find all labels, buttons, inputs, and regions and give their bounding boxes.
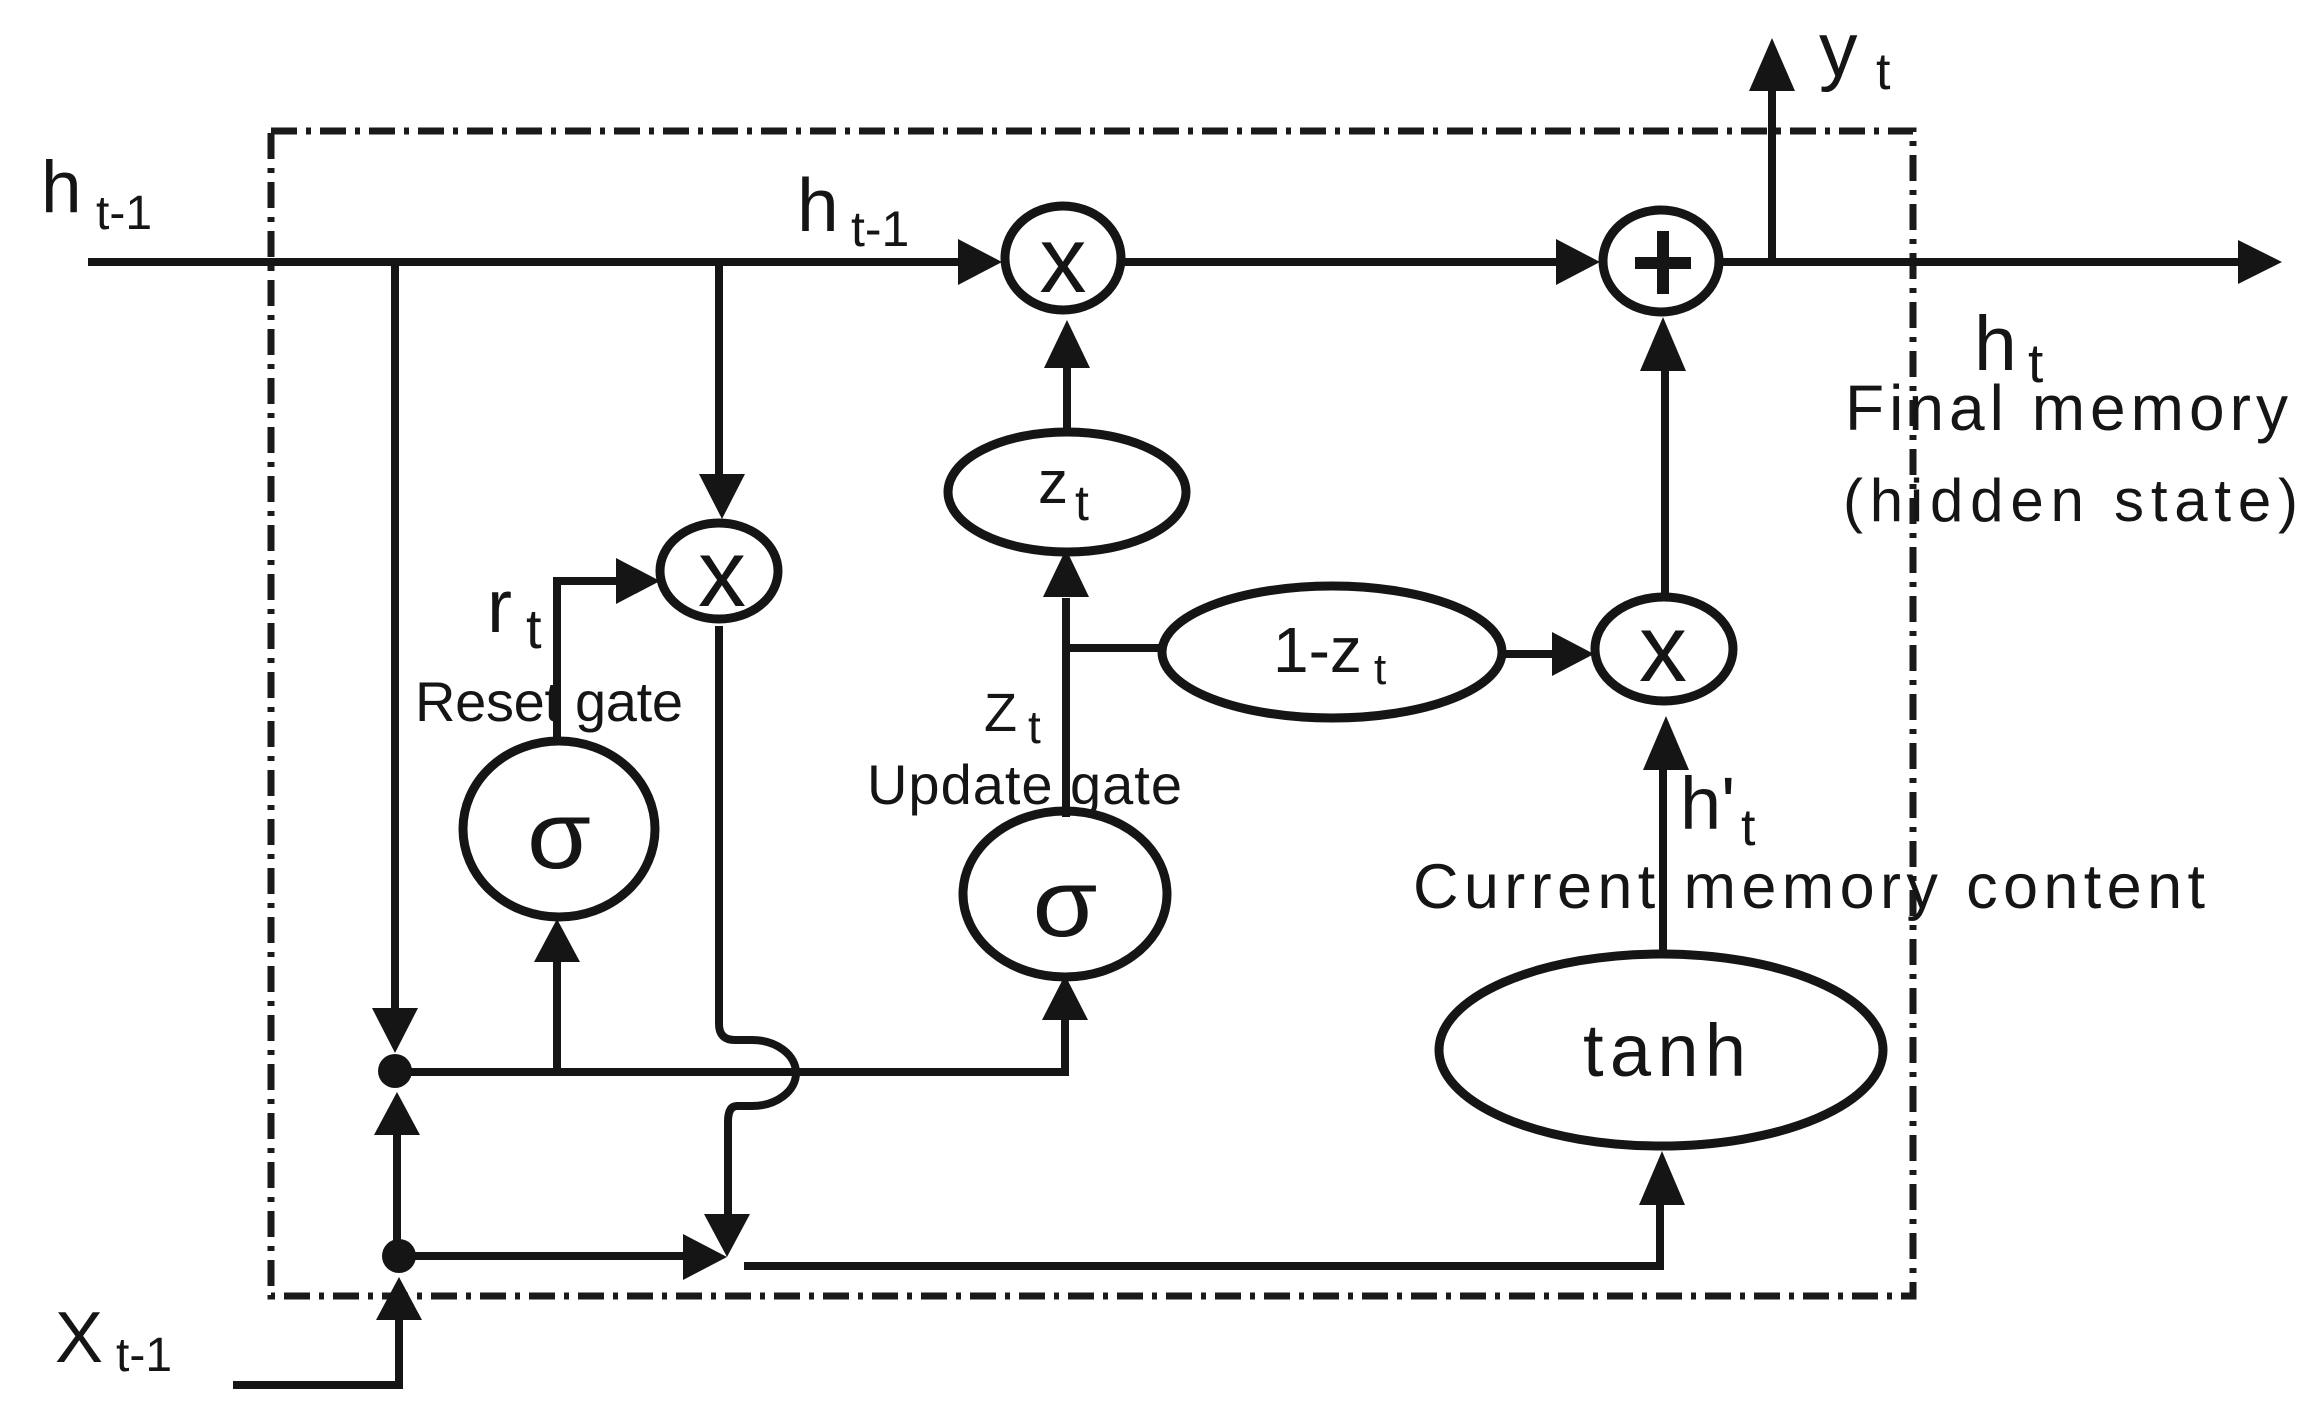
wire bus2 right to tanh — [744, 1205, 1660, 1266]
label Z t — [984, 683, 1041, 753]
wire multiplier X1 to adder — [1122, 258, 1558, 266]
label r t — [487, 564, 542, 660]
svg-text:x: x — [1639, 595, 1687, 702]
wire adder to h(t) output — [1719, 258, 2240, 266]
label X t-1 — [55, 1298, 172, 1382]
svg-text:X: X — [55, 1298, 103, 1378]
wire hop from X2 down over bus1 to bus2 — [719, 626, 796, 1216]
svg-text:σ: σ — [527, 782, 591, 889]
svg-text:t-1: t-1 — [116, 1329, 172, 1382]
wire sigma(update) up to z(t) with T junction — [1066, 598, 1164, 817]
arrow up into X3 bottom — [1643, 716, 1689, 770]
arrow up into adder — [1640, 317, 1686, 371]
svg-text:h: h — [41, 147, 82, 228]
wire z(t) up to multiplier X1 — [1063, 368, 1071, 432]
svg-text:t: t — [1374, 645, 1386, 694]
label y t — [1819, 7, 1891, 101]
wire y(t) output up — [1768, 90, 1776, 262]
arrow into multiplier X1 — [958, 239, 1002, 285]
wire between junction dots — [393, 1132, 401, 1254]
svg-text:σ: σ — [1033, 850, 1098, 957]
wire X(t-1) input — [233, 1318, 399, 1385]
arrow up into sigma(reset) — [534, 919, 580, 962]
tanh ellipse — [1439, 954, 1883, 1146]
wire tanh up to X3 (h't) — [1659, 768, 1667, 954]
wire branch v1 down from bus — [391, 262, 399, 1010]
svg-text:t-1: t-1 — [851, 201, 909, 257]
arrow into X3 — [1552, 632, 1594, 676]
svg-text:Update gate: Update gate — [867, 753, 1182, 816]
svg-text:Final memory: Final memory — [1845, 372, 2288, 444]
sigma gate (update) — [963, 811, 1167, 977]
arrow v1 down into junction — [372, 1008, 418, 1053]
arrow X(t-1) up into junction dot 2 — [376, 1277, 422, 1320]
wire 1-z(t) to multiplier X3 — [1502, 650, 1558, 658]
1-z(t) ellipse — [1162, 586, 1502, 718]
multiplier X3 (right) — [1595, 595, 1733, 702]
arrow into adder — [1556, 239, 1600, 285]
svg-text:r: r — [487, 564, 512, 648]
svg-text:Z: Z — [984, 683, 1017, 743]
svg-text:x: x — [698, 520, 746, 627]
svg-text:t: t — [1075, 475, 1089, 531]
node A label h t-1 (outside left) — [41, 147, 152, 240]
arrow up into sigma(update) — [1042, 975, 1088, 1020]
svg-text:y: y — [1819, 7, 1858, 93]
arrow y(t) up — [1749, 38, 1795, 91]
svg-text:t: t — [1741, 799, 1756, 857]
arrow v2 down — [699, 474, 745, 519]
multiplier X1 (h(t-1) * z(t)) — [1005, 206, 1121, 312]
svg-text:(hidden state): (hidden state) — [1843, 467, 2298, 534]
wire X3 up to adder — [1661, 370, 1669, 596]
junction dot 2 — [382, 1239, 416, 1273]
wire r(t) from sigma up and right into X2 — [557, 581, 618, 743]
svg-text:t: t — [1876, 43, 1891, 101]
svg-text:t: t — [1028, 701, 1041, 753]
arrow up into X1 — [1044, 320, 1090, 368]
svg-text:h': h' — [1680, 762, 1735, 845]
svg-text:h: h — [797, 163, 839, 247]
adder node (+) — [1603, 210, 1719, 312]
arrow h(t) output right — [2238, 240, 2282, 284]
arrow hop line down into bus2 — [704, 1214, 750, 1257]
arrow up into junction dot 1 — [374, 1092, 420, 1135]
multiplier X2 (reset) — [660, 520, 778, 627]
wire branch v2 down from bus to reset multiplier — [715, 262, 723, 476]
arrow bus2 right — [683, 1234, 727, 1280]
arrow up into tanh — [1639, 1151, 1685, 1205]
wire h(t-1) input bus — [88, 258, 960, 266]
arrow r(t) into X2 — [616, 558, 660, 604]
GRU cell dashed boundary — [271, 131, 1913, 1296]
arrow up into z(t) ellipse — [1043, 549, 1089, 597]
wire bus2 left (from junction dot 2) — [395, 1252, 685, 1260]
sigma gate (reset) — [463, 741, 655, 917]
svg-text:1-z: 1-z — [1273, 614, 1362, 686]
svg-text:x: x — [1040, 207, 1087, 312]
svg-text:Reset gate: Reset gate — [415, 670, 683, 733]
svg-text:t-1: t-1 — [96, 187, 152, 240]
z(t) ellipse — [948, 432, 1186, 552]
junction dot 1 — [378, 1054, 412, 1088]
label h' t — [1680, 762, 1756, 857]
label h t — [1974, 301, 2043, 394]
svg-text:Current memory content: Current memory content — [1413, 852, 2205, 922]
svg-text:z: z — [1038, 449, 1068, 516]
wire sigma(reset) input from bus1 — [553, 962, 561, 1070]
node B label h t-1 (inside, before multiplier) — [797, 163, 909, 257]
wire bus1 to update sigma — [395, 1020, 1065, 1072]
svg-text:t: t — [526, 597, 542, 660]
